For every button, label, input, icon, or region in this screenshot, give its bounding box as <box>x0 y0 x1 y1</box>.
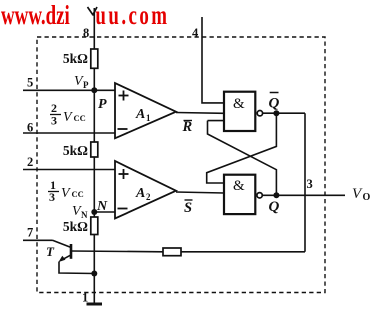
svg-text:&: & <box>233 96 245 112</box>
svg-text:5kΩ: 5kΩ <box>63 51 88 66</box>
svg-text:7: 7 <box>27 226 33 240</box>
wire VN to A2 - input <box>94 211 115 213</box>
resistor R2 body <box>91 142 98 157</box>
G2 output wire / pin 3 lead <box>262 194 345 196</box>
junction VP <box>91 87 97 93</box>
A2 - input symbol <box>118 208 128 210</box>
1/3 Vcc label <box>48 178 84 204</box>
pin 1 label <box>82 291 88 305</box>
junction emitter/ground rail <box>91 271 97 277</box>
pin 3 label <box>307 177 313 191</box>
NAND gate G1 body <box>224 92 255 131</box>
svg-text:3: 3 <box>51 114 57 128</box>
pin 4 lead (reset) <box>202 17 224 103</box>
wire R1 to node VP <box>93 68 95 90</box>
pin 5 label <box>27 76 33 90</box>
svg-text:O: O <box>363 192 371 203</box>
svg-text:V: V <box>61 186 71 201</box>
svg-text:6: 6 <box>27 121 33 135</box>
cross-coupling wire Q-bar to G2 input <box>207 113 277 183</box>
base resistor body <box>163 248 181 256</box>
svg-text:R: R <box>182 119 193 135</box>
resistor R3 body <box>91 217 98 235</box>
S-bar label <box>184 200 193 216</box>
G2 & symbol <box>233 178 245 194</box>
svg-text:V: V <box>352 186 363 202</box>
node N label <box>96 199 108 214</box>
svg-text:www.dzi: www.dzi <box>1 1 70 31</box>
G1 output bubble <box>257 111 262 116</box>
svg-text:S: S <box>184 200 192 216</box>
svg-text:N: N <box>96 199 108 214</box>
A1 - input symbol <box>118 128 128 130</box>
svg-text:P: P <box>98 97 107 112</box>
pin 2 lead <box>23 169 116 171</box>
wire R3 to ground rail <box>93 235 95 304</box>
svg-text:5kΩ: 5kΩ <box>63 219 88 234</box>
Q label <box>269 199 280 215</box>
svg-text:uu.com: uu.com <box>95 1 167 31</box>
pin 7 lead <box>23 239 53 241</box>
2/3 Vcc label <box>50 101 86 128</box>
transistor T collector lead <box>53 240 71 247</box>
junction Q-bar <box>273 110 279 116</box>
resistor R1 body <box>91 49 98 68</box>
svg-text:5: 5 <box>27 76 33 90</box>
svg-text:&: & <box>233 178 245 194</box>
svg-text:1: 1 <box>82 291 88 305</box>
Vo output label <box>352 186 371 203</box>
node P label <box>98 97 107 112</box>
comparator A1 <box>115 83 176 138</box>
A1 output wire (R-bar net) <box>176 112 224 115</box>
G1 & symbol <box>233 96 245 112</box>
wire R2 to node VN <box>93 157 95 217</box>
svg-text:P: P <box>83 80 89 90</box>
pin 6 lead <box>23 132 116 134</box>
A2 output wire (S-bar net) <box>176 192 224 193</box>
transistor T label <box>46 244 55 259</box>
node VP label <box>74 74 89 90</box>
pin 8 label <box>83 26 89 40</box>
NAND gate G2 body <box>224 175 255 214</box>
wire base resistor to feedback <box>181 251 305 253</box>
ground symbol <box>87 303 103 306</box>
svg-text:8: 8 <box>83 26 89 40</box>
partial Vcc glyph at top of pin 8 <box>88 7 98 16</box>
pin 7 label <box>27 226 33 240</box>
R-bar label <box>182 119 193 135</box>
svg-text:CC: CC <box>74 113 86 123</box>
feedback wire from Q-bar down <box>304 113 306 252</box>
A2 label <box>135 186 151 202</box>
G1 feedback input stub <box>208 120 225 122</box>
svg-text:3: 3 <box>49 190 55 204</box>
pin 2 label <box>27 155 33 169</box>
svg-text:Q: Q <box>269 96 280 112</box>
pin 8 lead (Vcc) <box>93 8 95 49</box>
R3 value label 5kΩ <box>63 219 88 234</box>
transistor T emitter lead with arrow <box>59 255 95 273</box>
R1 value label 5kΩ <box>63 51 88 66</box>
Q-bar label <box>269 93 280 112</box>
pin 6 label <box>27 121 33 135</box>
svg-text:T: T <box>46 244 55 259</box>
svg-text:A: A <box>135 186 145 201</box>
transistor T base lead <box>71 250 163 253</box>
wire VP down to R2 <box>93 90 95 142</box>
cross-coupling wire Q to G1 input <box>208 121 277 196</box>
pin 5 lead <box>23 89 94 91</box>
pin 4 label <box>192 26 199 40</box>
comparator A2 <box>115 161 176 219</box>
svg-text:A: A <box>135 107 145 122</box>
A1 + input symbol <box>119 91 129 101</box>
A2 + input symbol <box>119 169 129 179</box>
junction VN <box>91 209 97 215</box>
svg-text:2: 2 <box>146 192 151 202</box>
svg-text:4: 4 <box>192 26 199 40</box>
svg-text:CC: CC <box>72 189 84 199</box>
R2 value label 5kΩ <box>63 143 88 158</box>
wire VP to A1 + input <box>94 89 115 91</box>
svg-text:Q: Q <box>269 199 280 215</box>
transistor T base bar <box>70 244 73 259</box>
junction Q <box>273 192 279 198</box>
watermark www.dziuu.com <box>1 1 167 31</box>
G1 output wire (Q-bar net) <box>263 112 305 114</box>
svg-text:5kΩ: 5kΩ <box>63 143 88 158</box>
node VN label <box>72 204 88 220</box>
G2 output bubble <box>257 193 262 198</box>
svg-text:2: 2 <box>27 155 33 169</box>
svg-text:V: V <box>63 110 73 125</box>
svg-text:1: 1 <box>146 113 151 123</box>
svg-text:3: 3 <box>307 177 313 191</box>
A1 label <box>135 107 151 123</box>
IC package boundary (dashed) <box>37 37 325 293</box>
